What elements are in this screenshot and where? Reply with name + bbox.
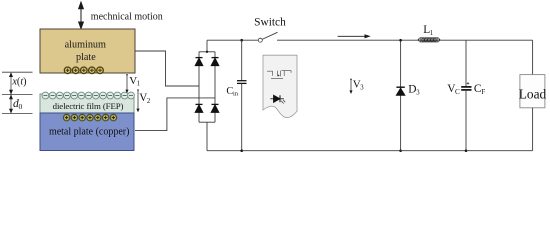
inductor L1: [418, 38, 441, 42]
load branch wire top: [532, 40, 534, 74]
capacitor C_F: [465, 40, 467, 87]
transistor inside paper: [267, 71, 291, 79]
top wire left of switch: [207, 39, 258, 41]
wire from metal plate to bridge: [135, 98, 215, 131]
node D3 top: [399, 39, 402, 42]
bridge rectifier frame: [199, 40, 215, 151]
node C_F bottom: [465, 149, 468, 152]
svg-text:dielectric film (FEP): dielectric film (FEP): [53, 101, 124, 111]
load branch wire bottom: [532, 108, 534, 151]
diode D-bridge top-right: [211, 58, 219, 66]
svg-text:aluminum: aluminum: [65, 39, 106, 50]
svg-text:Load: Load: [519, 87, 547, 102]
load box: [520, 75, 545, 108]
V3 arrow: [350, 79, 352, 81]
diode D-bridge bottom-left: [195, 104, 203, 112]
V1 arrow: [126, 75, 128, 92]
diode D-bridge bottom-right: [211, 104, 219, 112]
dimension ticks x(t) and d0: [2, 72, 33, 113]
V2 arrow: [137, 90, 139, 111]
node C_in top: [240, 39, 243, 42]
node C_in bottom: [240, 149, 243, 152]
diode D-bridge top-left: [195, 58, 203, 66]
diode inside paper: [270, 95, 285, 103]
positive charges on metal plate: [63, 114, 116, 120]
paper note: [263, 55, 297, 118]
negative charges on film: [42, 92, 134, 99]
wire from aluminum plate to bridge: [135, 51, 199, 86]
capacitor C_in: [241, 40, 243, 80]
metal plate (copper): [40, 113, 134, 151]
svg-text:Switch: Switch: [254, 17, 286, 29]
aluminum plate: [40, 29, 135, 73]
svg-text:plate: plate: [76, 52, 96, 63]
top wire right of switch: [277, 39, 533, 41]
svg-text:x(t): x(t): [11, 77, 26, 88]
switch: [258, 38, 262, 42]
svg-text:mechnical motion: mechnical motion: [91, 12, 163, 23]
current direction arrow: [338, 35, 367, 37]
dielectric film (FEP): [40, 94, 134, 113]
mechanical motion double arrow: [79, 2, 84, 28]
svg-text:metal plate (copper): metal plate (copper): [49, 126, 130, 137]
diode D3 branch: [400, 40, 402, 151]
node D3 bottom: [399, 149, 402, 152]
plus sign of C_F: [467, 82, 469, 84]
node bridge top: [206, 51, 208, 53]
positive charges on aluminum plate: [64, 67, 103, 74]
bottom wire: [207, 150, 533, 152]
diode D3: [396, 87, 404, 95]
